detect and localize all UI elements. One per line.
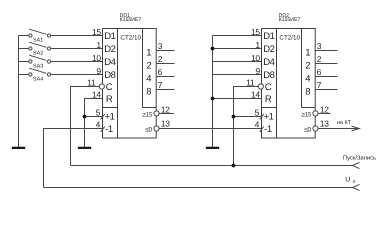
svg-text:+1: +1 [264,111,274,122]
svg-text:2: 2 [305,61,310,72]
svg-text:13: 13 [161,118,170,128]
DD2 output stubs 3,2,6,7 [315,51,337,90]
svg-text:4: 4 [255,119,260,129]
svg-text:≤0: ≤0 [304,127,311,134]
svg-text:6: 6 [158,67,163,77]
ground (DD2 bus) [206,147,219,149]
svg-text:3: 3 [158,41,163,51]
svg-text:D1: D1 [263,31,274,42]
svg-text:C: C [265,82,272,93]
svg-text:Пуск/Запись: Пуск/Запись [343,155,376,162]
junction C/+1 [232,115,236,119]
svg-text:1: 1 [146,48,151,59]
DD2 pin +1 (5) stub [234,116,262,118]
svg-text:15: 15 [92,27,101,37]
svg-text:8: 8 [146,87,151,98]
svg-text:SA3: SA3 [33,64,43,70]
wire SA4 to D8 [51,74,103,76]
DD1 pin 13 (<=0) circle [154,126,159,131]
junction Pusk line / DD2 C [232,164,236,168]
switch SA2 [29,42,51,57]
svg-text:CT2/10: CT2/10 [120,35,141,42]
DD1 +1 dynamic-input slash [101,114,105,119]
DD2 input ground bus [213,36,262,148]
DD1 pin C (11) circle [99,84,104,89]
svg-text:7: 7 [317,80,322,90]
svg-text:9: 9 [96,66,101,76]
DD2 pin 13 (<=0) circle [313,126,318,131]
DD2 +1 dynamic-input slash [260,114,264,119]
svg-text:8: 8 [305,87,310,98]
svg-text:SA1: SA1 [33,38,43,44]
DD1 pin C wire to Pusk/Zapis line [71,87,100,166]
svg-text:D2: D2 [263,44,274,55]
svg-text:на КТ: на КТ [337,120,352,126]
svg-text:D8: D8 [104,70,115,81]
svg-text:6: 6 [317,67,322,77]
svg-text:4: 4 [96,119,101,129]
svg-text:5: 5 [255,107,260,117]
svg-text:R: R [106,94,113,105]
svg-text:-1: -1 [105,124,113,135]
output na KT wire with arrow [318,120,359,131]
svg-text:SA2: SA2 [33,51,43,57]
svg-text:15: 15 [251,27,260,37]
ground (switch bus) [12,147,25,149]
U supply net wire [44,177,360,191]
svg-text:13: 13 [320,118,329,128]
svg-text:2: 2 [317,54,322,64]
svg-text:1: 1 [96,40,101,50]
svg-text:R: R [265,94,272,105]
svg-text:D8: D8 [263,70,274,81]
svg-text:К155ИЕ7: К155ИЕ7 [279,17,301,23]
svg-text:≤0: ≤0 [145,127,152,134]
svg-text:≥15: ≥15 [301,111,311,118]
svg-text:5: 5 [96,107,101,117]
DD1 output stubs 3,2,6,7 [156,51,174,90]
DD1 -1 dynamic-input slash [101,127,105,132]
svg-text:3: 3 [317,41,322,51]
switch SA1 [29,29,51,44]
junction R/+1/ground [83,115,87,119]
svg-text:2: 2 [158,54,163,64]
svg-text:+1: +1 [105,111,115,122]
counter DD2 K155IE7 body [262,13,316,138]
wire SA2 to D2 [51,48,103,50]
svg-text:U: U [345,177,350,184]
switch SA3 [29,55,51,69]
switch common bus [19,36,29,148]
svg-text:12: 12 [320,104,329,114]
svg-text:7: 7 [158,80,163,90]
svg-text:SA4: SA4 [33,77,43,83]
Pusk/Zapis net wire [71,155,377,169]
svg-text:CT2/10: CT2/10 [279,35,300,42]
DD1 pin +1 (5) stub [85,116,103,118]
svg-text:D2: D2 [104,44,115,55]
svg-text:2: 2 [146,61,151,72]
wire SA1 to D1 [51,35,103,37]
svg-text:D1: D1 [104,31,115,42]
wire DD1 pin13 to DD2 pin4 (-1) [159,128,261,130]
DD2 pin C wire down to Pusk/Zapis line [234,87,259,166]
svg-text:10: 10 [92,53,101,63]
junction bus/R [211,97,215,101]
svg-text:п: п [353,179,356,185]
svg-text:D4: D4 [263,57,274,68]
DD1 pin 12 (>=15) circle and stub [154,111,174,116]
DD2 pin numbers [246,27,329,129]
DD1 pin numbers [87,27,170,129]
DD1 pin R (14) wire to ground [85,99,103,147]
counter DD1 K155IE7 body [103,13,157,138]
svg-text:4: 4 [305,74,310,85]
DD2 pin 12 (>=15) circle and stub [313,111,331,116]
svg-text:12: 12 [161,104,170,114]
svg-text:14: 14 [251,90,260,100]
svg-text:1: 1 [305,48,310,59]
svg-text:D4: D4 [104,57,115,68]
DD2 pin C (11) circle [258,84,263,89]
svg-text:К155ИЕ7: К155ИЕ7 [120,17,142,23]
svg-text:10: 10 [251,53,260,63]
DD2 -1 dynamic-input slash [260,127,264,132]
svg-text:4: 4 [146,74,151,85]
svg-text:≥15: ≥15 [142,111,152,118]
svg-text:9: 9 [255,66,260,76]
svg-text:C: C [106,82,113,93]
DD1 pin -1 (4) wire to U line [44,129,103,188]
wire SA3 to D4 [51,61,103,63]
svg-text:-1: -1 [264,124,272,135]
switch SA4 [29,68,51,83]
ground (DD1 R,+1) [78,147,91,149]
junction bus/D2 [211,47,215,51]
svg-text:1: 1 [255,40,260,50]
